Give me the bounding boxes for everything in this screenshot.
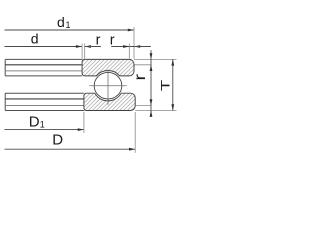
housing washer bottom face line (left) xyxy=(5,110,84,112)
left edge of housing washer silhouette xyxy=(4,93,6,110)
svg-text:T: T xyxy=(159,79,172,91)
r dimension vertical line (right) xyxy=(150,50,152,117)
T bottom arrow xyxy=(171,104,174,110)
r outside arrow above bottom corner line xyxy=(150,99,153,105)
r arrow tail (OD edge) xyxy=(134,46,151,48)
housing washer (bottom) cross-section xyxy=(84,93,135,110)
r outside arrow (OD edge) xyxy=(134,45,140,48)
housing washer groove line (left) xyxy=(5,98,84,100)
r outside arrow below top corner line xyxy=(150,65,153,71)
r extension line (bore corner end) xyxy=(84,44,86,59)
D1 dimension line xyxy=(5,129,84,131)
shaft washer top face line (left) xyxy=(5,58,82,60)
r dimension line (OD corner) xyxy=(111,46,134,48)
d1 extension line xyxy=(133,27,135,59)
thrust ball bearing cross-section drawing xyxy=(0,0,180,170)
r outside arrow (bore corner) xyxy=(85,45,91,48)
r outside arrow below bottom face xyxy=(150,111,153,117)
corner r connector line (bottom right) xyxy=(135,105,151,107)
shaft washer bottom face line (left) xyxy=(5,75,82,77)
r extension line (OD corner start) xyxy=(128,44,130,59)
r arrow tail (bore corner) xyxy=(85,46,101,48)
D arrow xyxy=(129,148,135,151)
D1 extension line xyxy=(83,112,85,133)
T top arrow xyxy=(171,59,174,65)
D extension line xyxy=(134,112,136,153)
T extension line (bottom) xyxy=(135,110,176,112)
shaft washer (top) cross-section xyxy=(82,59,134,76)
d1 dimension line xyxy=(5,29,134,31)
svg-text:r: r xyxy=(110,33,115,49)
svg-text:1: 1 xyxy=(66,20,71,30)
ball centerline vertical xyxy=(107,70,109,105)
svg-text:r: r xyxy=(131,74,149,81)
corner r connector line (top right) xyxy=(134,64,152,66)
d1 arrow xyxy=(128,29,134,32)
r inward arrow (OD corner start) xyxy=(123,45,129,48)
svg-text:d: d xyxy=(31,30,39,46)
housing washer top face line (left) xyxy=(5,92,84,94)
shaft washer corner line (left) xyxy=(5,64,82,66)
left edge of shaft washer silhouette xyxy=(4,59,6,76)
shaft washer groove line (left) xyxy=(5,70,82,72)
r outside arrow above top face xyxy=(150,53,153,59)
ball centerline horizontal xyxy=(89,85,126,87)
d / r extension line (bore edge) xyxy=(81,44,83,59)
svg-text:d: d xyxy=(57,14,65,30)
d dimension line xyxy=(5,46,82,48)
T dimension line xyxy=(172,59,174,110)
T extension line (top) xyxy=(134,58,177,60)
ball xyxy=(94,72,122,99)
d arrow xyxy=(76,45,82,48)
D1 arrow xyxy=(78,128,84,131)
housing washer corner line (left) xyxy=(5,105,84,107)
svg-text:1: 1 xyxy=(40,120,45,130)
svg-text:D: D xyxy=(52,132,63,149)
svg-text:D: D xyxy=(29,114,40,131)
D dimension line xyxy=(5,148,135,150)
svg-text:r: r xyxy=(96,33,101,49)
